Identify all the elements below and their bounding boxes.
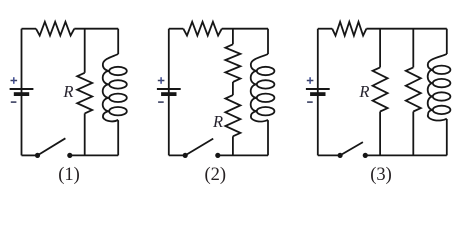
svg-text:(2): (2) [205,165,227,185]
svg-text:(3): (3) [370,165,392,185]
svg-text:R: R [62,82,73,101]
svg-text:(1): (1) [58,165,80,185]
svg-text:R: R [358,82,369,101]
svg-text:R: R [212,112,223,131]
